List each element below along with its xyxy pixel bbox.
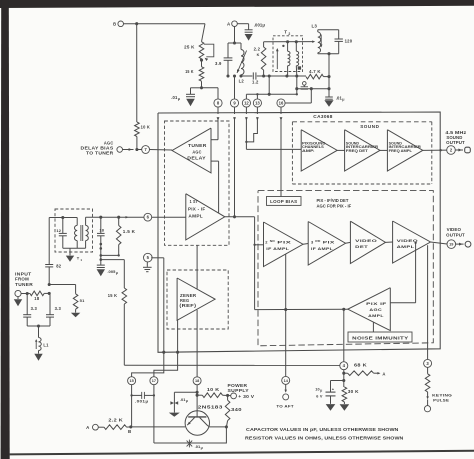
svg-text:.001μ: .001μ <box>254 23 266 28</box>
svg-text:2N5183: 2N5183 <box>198 404 224 409</box>
svg-text:AMPL: AMPL <box>397 244 415 249</box>
svg-text:RESISTOR VALUES IN OHMS, UNLES: RESISTOR VALUES IN OHMS, UNLESS OTHERWIS… <box>245 436 404 442</box>
svg-text:K: K <box>257 53 260 57</box>
svg-text:DELAY: DELAY <box>187 156 206 161</box>
svg-text:1.2: 1.2 <box>252 79 259 84</box>
svg-text:19: 19 <box>449 242 453 246</box>
svg-text:18: 18 <box>195 379 199 383</box>
svg-text:TO TUNER: TO TUNER <box>86 151 114 156</box>
svg-text:A: A <box>227 21 231 26</box>
svg-text:μ: μ <box>342 97 344 101</box>
svg-text:AGC: AGC <box>369 307 382 312</box>
svg-text:T: T <box>284 30 287 35</box>
svg-text:6 V: 6 V <box>316 394 323 398</box>
svg-text:13: 13 <box>255 101 260 106</box>
svg-text:PIX - IF: PIX - IF <box>188 206 206 211</box>
svg-text:340: 340 <box>231 407 242 412</box>
svg-text:12: 12 <box>244 101 249 106</box>
svg-text:PIX - IF/VID DET: PIX - IF/VID DET <box>317 198 349 203</box>
svg-text:RD: RD <box>315 239 320 243</box>
svg-text:1 ST: 1 ST <box>190 199 199 204</box>
svg-text:AGC: AGC <box>192 149 201 154</box>
svg-text:10 K: 10 K <box>207 387 220 392</box>
svg-text:16: 16 <box>279 101 284 106</box>
svg-text:FREQ AMPL: FREQ AMPL <box>389 149 412 153</box>
svg-text:AMPL: AMPL <box>368 313 384 318</box>
svg-text:CA3068: CA3068 <box>313 114 333 119</box>
svg-text:68 K: 68 K <box>354 363 367 368</box>
svg-text:PULSE: PULSE <box>433 397 449 402</box>
svg-text:2.2 K: 2.2 K <box>108 417 123 422</box>
svg-text:15 K: 15 K <box>108 293 117 298</box>
svg-text:1.5 K: 1.5 K <box>123 229 135 234</box>
svg-text:2: 2 <box>288 32 290 36</box>
svg-text:B: B <box>113 21 116 26</box>
svg-text:18: 18 <box>34 296 40 301</box>
svg-text:AGC FOR PIX - IF: AGC FOR PIX - IF <box>317 203 352 208</box>
svg-text:.001μ: .001μ <box>135 399 149 404</box>
svg-text:IF AMPL: IF AMPL <box>311 246 333 251</box>
svg-text:OUTPUT: OUTPUT <box>446 232 465 237</box>
svg-text:3.9: 3.9 <box>215 61 222 66</box>
svg-text:VIDEO: VIDEO <box>355 238 377 243</box>
svg-text:4.7 K: 4.7 K <box>309 69 321 74</box>
svg-text:51: 51 <box>80 298 85 303</box>
svg-text:A: A <box>86 425 90 430</box>
svg-text:3.3: 3.3 <box>55 306 62 311</box>
svg-text:L2: L2 <box>239 79 245 84</box>
svg-text:2.2: 2.2 <box>254 47 261 52</box>
svg-text:μ: μ <box>178 97 180 101</box>
svg-text:120: 120 <box>345 39 353 44</box>
svg-text:+ 30 V: + 30 V <box>238 394 254 399</box>
svg-text:NOISE IMMUNITY: NOISE IMMUNITY <box>352 335 409 340</box>
svg-text:15 K: 15 K <box>185 69 194 74</box>
svg-text:TUNER: TUNER <box>188 143 207 148</box>
svg-text:SOUND: SOUND <box>360 124 379 129</box>
svg-text:IF AMPL: IF AMPL <box>266 246 289 251</box>
svg-text:25 K: 25 K <box>184 44 195 49</box>
svg-text:12: 12 <box>56 228 61 233</box>
svg-text:.005: .005 <box>107 269 116 274</box>
svg-text:A: A <box>382 371 385 376</box>
svg-text:10 K: 10 K <box>141 125 151 130</box>
svg-text:ND: ND <box>270 239 275 243</box>
svg-text:OUTPUT: OUTPUT <box>446 140 465 145</box>
svg-text:PIX: PIX <box>323 240 335 245</box>
svg-text:μ: μ <box>320 388 322 392</box>
svg-text:SUPPLY: SUPPLY <box>228 388 249 393</box>
svg-text:CAPACITOR VALUES IN pF, UNLESS: CAPACITOR VALUES IN pF, UNLESS OTHERWISE… <box>246 427 399 433</box>
svg-text:3.3: 3.3 <box>31 306 38 311</box>
svg-text:μ: μ <box>186 399 188 403</box>
svg-text:μ: μ <box>116 271 118 275</box>
svg-text:L3: L3 <box>312 24 318 29</box>
svg-text:FREQ DET: FREQ DET <box>346 149 368 153</box>
svg-text:TUNER: TUNER <box>15 282 33 287</box>
svg-text:(REF): (REF) <box>179 303 197 308</box>
svg-text:B: B <box>128 429 131 434</box>
svg-text:TO AFT: TO AFT <box>276 404 294 409</box>
svg-text:+: + <box>332 387 335 392</box>
svg-text:15: 15 <box>129 379 133 383</box>
svg-text:T: T <box>77 256 80 261</box>
svg-text:L1: L1 <box>43 342 49 347</box>
svg-text:μ: μ <box>201 446 203 450</box>
svg-text:PIX IF: PIX IF <box>366 301 387 306</box>
svg-text:VIDEO: VIDEO <box>447 227 462 232</box>
svg-text:PIX: PIX <box>277 240 291 245</box>
svg-text:1: 1 <box>80 258 82 262</box>
svg-text:LOOP BIAS: LOOP BIAS <box>270 199 297 204</box>
svg-text:AMP.: AMP. <box>302 149 315 153</box>
svg-text:AMPL: AMPL <box>188 214 203 219</box>
svg-text:82: 82 <box>56 264 62 269</box>
svg-text:17: 17 <box>152 379 156 383</box>
svg-text:4.5 MHᴢ: 4.5 MHᴢ <box>445 130 466 135</box>
svg-text:18: 18 <box>99 228 104 233</box>
svg-text:DET: DET <box>355 244 368 249</box>
svg-text:30 K: 30 K <box>348 389 359 394</box>
